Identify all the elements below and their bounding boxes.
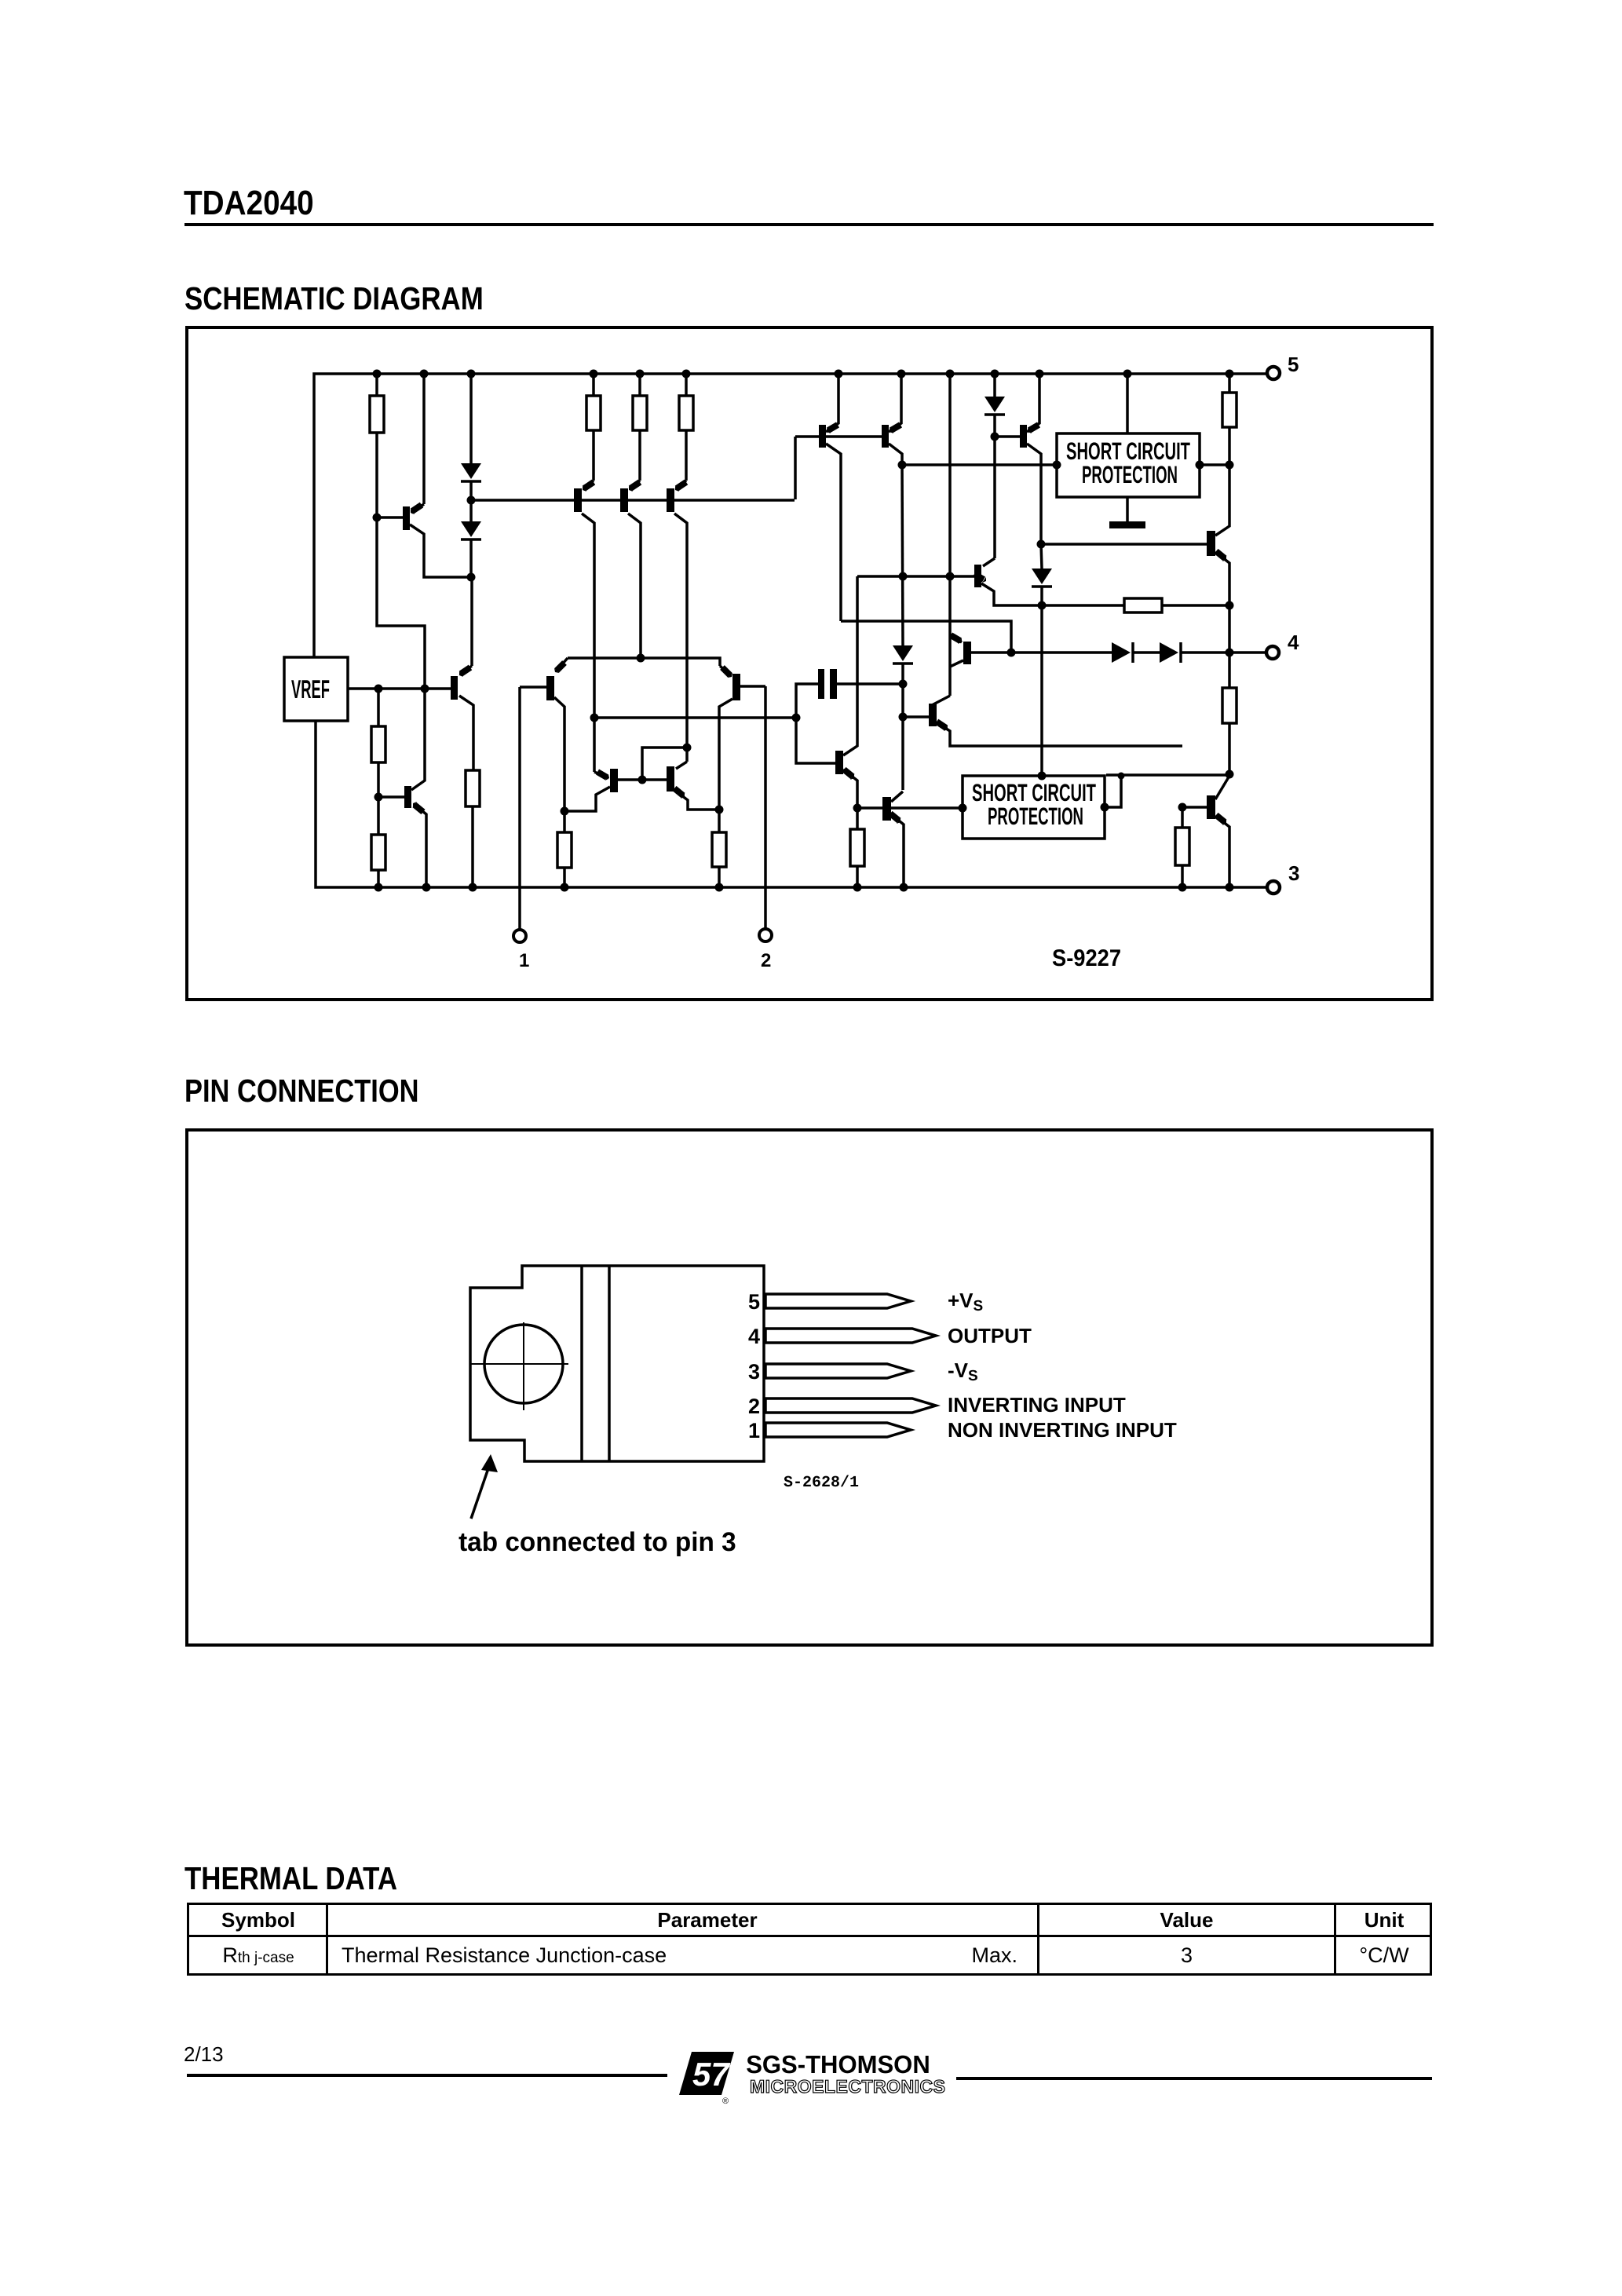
node sense right [1226,601,1234,610]
svg-text:4: 4 [748,1325,760,1348]
title TDA2040 [184,184,314,223]
footer rule right [956,2077,1432,2080]
heading SCHEMATIC DIAGRAM [184,280,484,317]
transistor Q6 [593,718,596,772]
svg-text:1: 1 [519,950,529,971]
node rail x1148 [897,370,906,378]
node box1 left [1053,461,1061,470]
package outline TO220 [470,1266,764,1461]
node loop / QM3 collector [683,744,692,752]
transistor Q9 [882,797,891,821]
node tail x816 [637,654,645,663]
svg-text:1: 1 [748,1419,760,1442]
node base link [638,776,647,784]
wire box2 top to output column [1106,773,1229,777]
wire box1 right to R9 [1200,463,1229,466]
mounting hole [484,1325,563,1403]
title rule [184,223,1434,226]
wire Qt base [995,435,1020,438]
svg-text:VREF: VREF [291,675,330,704]
svg-text:+VS: +VS [948,1289,983,1314]
pin 1 lead [765,1423,911,1437]
node Qd base / D3 column [899,572,908,581]
VREF block [284,657,348,721]
ground [1126,497,1129,521]
node QM1 collector / comp line [590,714,599,722]
diode D3 [902,465,903,645]
node bottom rail x916 [715,883,724,892]
wire base-collector loop [642,748,687,780]
pin connection frame [185,1128,1434,1647]
node Q5 collector / Q7 emitter [715,806,724,814]
resistor R8 [685,374,688,396]
hole crosshair horizontal [470,1363,568,1365]
diode D1b [993,374,996,397]
node R9 bottom [1226,461,1234,470]
node rail x756 [590,370,598,378]
pin 5 lead [765,1294,911,1308]
node bottom rail x602 [469,883,477,892]
resistor Rs sense [1042,604,1124,607]
transistor Qscp1 [951,635,960,641]
package inner line 1 [580,1265,583,1461]
node scp2 riser T [1118,773,1125,780]
wire output column [1228,605,1231,653]
node Q4 collector / Q6 collector [561,807,569,816]
wire scp2 right pin [1105,776,1121,807]
svg-text:4: 4 [1288,631,1299,654]
node rail x874 [682,370,691,378]
wire Qd base [857,575,974,578]
terminal pin 3 [1267,881,1280,894]
terminal pin 4 [1266,646,1279,659]
wire R1 node to Q2 collector column [377,517,425,776]
tab arrow [471,1468,488,1519]
svg-text:S-2628/1: S-2628/1 [784,1474,859,1492]
resistor R1 [375,374,378,396]
svg-text:PROTECTION: PROTECTION [988,803,1083,830]
node bottom rail x1151 [900,883,908,892]
node bottom rail x1566 [1226,883,1234,892]
node bottom rail x719 [561,883,569,892]
node bottom rail x1092 [853,883,862,892]
svg-text:S-9227: S-9227 [1052,945,1121,971]
svg-text:5: 5 [748,1290,760,1314]
svg-text:INVERTING INPUT: INVERTING INPUT [948,1393,1126,1417]
node Qo1 base [1037,540,1046,549]
transistor Q5 input right [720,666,731,676]
node box2 right [1101,803,1109,812]
SCP box 1 [1057,433,1200,497]
node scp column T [946,572,955,581]
wire output sense line [1011,651,1112,654]
svg-text:5: 5 [1288,353,1299,376]
resistor R6 [592,374,595,396]
node rail x1566 [1226,370,1234,378]
transistor Q4 input left [556,658,568,671]
transistor Qo2 [1207,795,1215,819]
svg-text:tab connected to pin 3: tab connected to pin 3 [458,1527,736,1557]
node rail x540 [420,370,429,378]
wire diff tail rail [568,658,720,666]
transistor Qd [993,437,996,558]
node box2 top [1038,772,1047,781]
terminal pin 1 [513,930,526,942]
svg-text:OUTPUT: OUTPUT [948,1324,1032,1347]
node Qo2 collector [1226,770,1234,779]
node Qo2 base [1178,803,1187,812]
node R2/R4 divider [374,793,383,802]
wire VREF output [348,687,451,690]
svg-text:3: 3 [748,1360,760,1384]
wire pin1 lead [518,687,521,930]
wire pair base bus [795,435,882,438]
wire to pin 4 [1229,651,1266,654]
heading THERMAL DATA [184,1860,397,1897]
svg-text:PROTECTION: PROTECTION [1082,461,1178,488]
wire Qo1 base line [1041,543,1207,546]
node rail x1324 [1036,370,1044,378]
node rail x600 [467,370,476,378]
svg-text:MICROELECTRONICS: MICROELECTRONICS [750,2076,946,2097]
top supply rail (pin 5 net) [314,374,1266,657]
wire scp column [948,374,952,696]
wire to SCP1 box [902,463,1057,466]
transistor QP2 [882,425,889,448]
svg-text:3: 3 [1288,861,1299,885]
resistor R4 [377,797,380,835]
transistor QP1 [819,425,826,448]
node box1 right [1196,461,1204,470]
diode D4 [1112,642,1131,663]
transistor QM2 [630,481,640,489]
svg-text:57: 57 [692,2056,730,2093]
wire mirror base bus [471,499,795,502]
terminal pin 5 [1267,367,1280,379]
transistor QM3 [676,481,686,489]
resistor R5 [466,770,480,806]
node D2 bottom / Q1 collector [467,573,476,582]
wire diode column lower [901,684,904,790]
hole crosshair vertical [523,1322,524,1410]
node rail x1210 [946,370,955,378]
resistor R9e [856,808,859,829]
node rail x815 [636,370,645,378]
diode D5 [1160,642,1178,663]
bottom rail (pin 3 net) [316,721,1266,887]
pin 4 lead [765,1329,936,1343]
wire pin2 lead [764,686,767,929]
svg-text:2: 2 [748,1395,760,1418]
node comp line right [792,714,801,722]
transistor Q2 [378,795,404,799]
transistor QM1 [583,481,594,489]
resistor R10 [1181,807,1184,828]
node D1b bottom [991,433,999,441]
node sense line left [1038,601,1047,610]
svg-text:NON INVERTING INPUT: NON INVERTING INPUT [948,1418,1177,1442]
diode D1 [469,374,473,463]
terminal pin 2 [759,929,772,941]
node Q8 emitter / Q9 base [853,804,862,813]
node output [1226,649,1234,657]
diode D6 [1041,544,1042,569]
svg-text:SGS-THOMSON: SGS-THOMSON [746,2050,930,2078]
node box1 top rail [1123,370,1132,378]
schematic frame [185,326,1434,1001]
node N2 drop [1007,649,1016,657]
capacitor C1 [818,669,824,699]
SCP box 2 [963,776,1105,839]
heading PIN CONNECTION [184,1073,419,1110]
svg-text:2: 2 [761,950,771,971]
resistor R7 [718,810,721,832]
transistor Q3 [470,577,473,666]
node cap right on diode column [899,680,908,689]
svg-text:®: ® [722,2097,729,2106]
resistor R11 [1228,653,1231,688]
resistor R3 [563,811,566,832]
transistor Qo1 [1207,531,1215,556]
node VREF/R2 [374,685,383,693]
wire N2 drive [841,621,1011,653]
node bottom rail x482 [374,883,383,892]
node R1 bottom [373,514,382,522]
package inner line 2 [608,1265,611,1461]
node rail x480 [373,370,382,378]
node rail x1267 [991,370,999,378]
node D1-D2 mid [467,496,476,505]
pin 3 lead [765,1364,911,1378]
transistor Qt [1020,425,1027,448]
diode D2 [461,521,481,537]
thermal data table [187,1903,1432,1976]
node bottom rail x1506 [1178,883,1187,892]
transistor Q8 [835,751,843,774]
resistor R2 [377,689,380,726]
wire box1 top [1126,374,1129,433]
node Q10 base tap [899,713,908,722]
wire Q9 base to SCP2 [857,806,963,810]
node VREF line x541 [421,685,429,693]
pin 2 lead [765,1398,936,1413]
transistor Q7 [676,762,687,769]
transistor Q1 [377,516,403,519]
resistor R9 [1228,374,1231,393]
wire pair bases drop [794,437,797,499]
wire comp line y914 [594,716,796,719]
node rail x1068 [835,370,843,378]
svg-text:-VS: -VS [948,1358,978,1384]
ST logo mark [675,2048,950,2107]
transistor Q10 [932,696,950,705]
node box2 left [959,804,967,813]
footer rule left [187,2074,667,2077]
wire Q6 Q7 base link [618,778,667,781]
node bottom rail x543 [422,883,431,892]
resistor R7 [638,374,641,396]
node QP2 collector [898,461,907,470]
wire cap to Q8 base [796,684,835,763]
page number [184,2042,224,2067]
